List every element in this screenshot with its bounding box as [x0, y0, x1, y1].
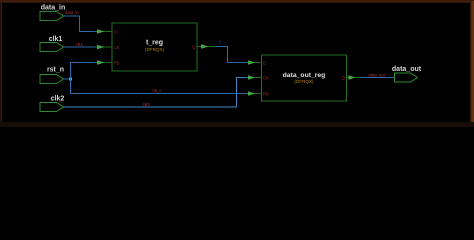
data_out_reg pin D	[263, 60, 266, 65]
svg-text:Q: Q	[192, 44, 196, 49]
svg-text:CK: CK	[114, 45, 120, 50]
net label rst_n	[153, 88, 163, 93]
arrow into t_reg pin CK	[97, 45, 105, 49]
svg-text:t_reg: t_reg	[146, 40, 163, 47]
svg-text:Q: Q	[342, 75, 346, 80]
svg-text:(DFRQX): (DFRQX)	[294, 79, 314, 84]
svg-text:clk2: clk2	[143, 102, 151, 107]
input port clk1	[40, 36, 64, 52]
svg-text:D: D	[114, 29, 117, 34]
output port data_out	[392, 66, 422, 82]
window border bottom	[0, 122, 474, 127]
svg-text:rst_n: rst_n	[47, 67, 64, 74]
wire clk2 to data_out_reg CK	[64, 78, 262, 108]
t_reg pin CK	[114, 45, 120, 50]
wire data_in to t_reg D	[64, 16, 112, 32]
t_reg pin Q	[192, 44, 196, 49]
svg-text:clk1: clk1	[76, 42, 84, 47]
wire clk1 to t_reg CK	[64, 46, 112, 48]
arrow out of data_out_reg pin Q	[347, 75, 362, 79]
arrow into data_out_reg pin RB	[248, 91, 256, 95]
wire rst_n lower branch to data_out_reg RB	[71, 79, 262, 94]
svg-text:data_out: data_out	[369, 73, 386, 78]
net label clk2	[143, 102, 151, 107]
svg-text:D: D	[263, 60, 266, 65]
junction dot rst_n	[69, 78, 72, 81]
wire rst_n upper branch to t_reg RB	[71, 63, 112, 80]
input port clk2	[40, 96, 64, 112]
wire net t from t_reg Q to data_out_reg D	[216, 47, 261, 63]
data_out_reg pin CK	[263, 75, 269, 80]
svg-text:RB: RB	[263, 91, 269, 96]
data_out_reg pin RB	[263, 91, 269, 96]
net label clk1	[76, 42, 84, 47]
svg-text:data_out: data_out	[392, 66, 422, 73]
input port rst_n	[40, 67, 64, 84]
register t_reg	[112, 23, 197, 71]
data_out_reg pin Q	[342, 75, 346, 80]
svg-text:clk1: clk1	[49, 36, 63, 43]
arrow out of t_reg pin Q	[198, 44, 217, 48]
arrow into data_out_reg pin CK	[248, 75, 256, 79]
t_reg pin D	[114, 29, 117, 34]
svg-text:data_in: data_in	[65, 10, 79, 15]
register data_out_reg	[262, 55, 347, 101]
svg-text:data_in: data_in	[41, 5, 66, 12]
window border top	[0, 0, 474, 3]
net label t	[220, 40, 222, 45]
svg-text:clk2: clk2	[51, 96, 65, 103]
net label data_out	[369, 73, 386, 78]
window border left	[0, 3, 2, 123]
svg-text:CK: CK	[263, 75, 269, 80]
arrow into t_reg pin D	[97, 29, 105, 33]
t_reg pin RB	[114, 60, 120, 65]
wire rst_n stub to junction	[64, 78, 71, 80]
wire data_out to output port	[362, 77, 395, 79]
net label data_in	[65, 10, 79, 15]
svg-text:rst_n: rst_n	[153, 88, 163, 93]
window border right	[470, 1, 474, 125]
input port data_in	[40, 5, 65, 21]
arrow into data_out_reg pin D	[248, 60, 256, 64]
svg-text:RB: RB	[114, 60, 120, 65]
arrow into t_reg pin RB	[97, 60, 105, 64]
svg-text:(DFRQX): (DFRQX)	[145, 47, 165, 52]
